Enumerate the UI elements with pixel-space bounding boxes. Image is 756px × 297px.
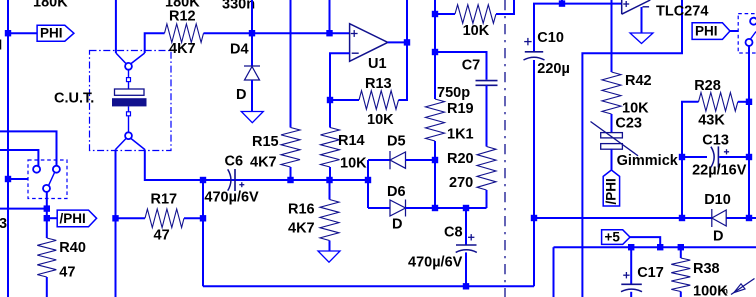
flag /PHI (vertical) xyxy=(603,170,619,206)
resistor R38 body xyxy=(671,258,690,292)
svg-text:C.U.T.: C.U.T. xyxy=(54,91,94,107)
svg-text:R28: R28 xyxy=(694,78,721,94)
wire C8 top lead xyxy=(465,208,467,245)
resistor R14 body xyxy=(321,128,340,168)
wire C6 right lead xyxy=(236,179,291,181)
junction C7 tap xyxy=(432,49,438,55)
wire U2 ground stem xyxy=(641,7,643,33)
wire R15 top lead xyxy=(290,0,292,128)
resistor R17 body xyxy=(145,209,184,228)
svg-text:N: N xyxy=(0,38,2,54)
junction net stub at top xyxy=(559,0,565,6)
wire D6 left lead xyxy=(368,207,390,209)
wire connector down xyxy=(748,46,750,102)
svg-text:43K: 43K xyxy=(698,113,725,129)
wire mid rail xyxy=(203,179,368,181)
svg-text:750p: 750p xyxy=(437,85,470,101)
svg-text:TLC274: TLC274 xyxy=(656,4,708,20)
wire to /PHI flag xyxy=(47,217,57,219)
wire right column xyxy=(748,102,750,218)
svg-text:/PHI: /PHI xyxy=(60,211,86,226)
wire rail y=218 right part xyxy=(726,217,756,219)
wire C17 bottom stub xyxy=(630,292,632,297)
wire rail y=218 left part xyxy=(534,217,712,219)
wire C23 to flag xyxy=(611,149,613,170)
flag PHI (top left) xyxy=(37,25,74,41)
capacitor C23 plate 1 xyxy=(601,133,623,138)
flag /PHI (left) xyxy=(57,210,96,227)
diode D6 bar xyxy=(405,200,407,217)
resistor R12 body xyxy=(165,24,204,43)
wire R28 left corner xyxy=(682,102,699,218)
svg-text:10K: 10K xyxy=(622,101,649,117)
wire C13 left lead xyxy=(682,156,707,158)
crystal bottom terminal circle xyxy=(125,132,132,139)
switch S1 box (dashed) xyxy=(28,160,67,199)
junction R17 right xyxy=(200,215,206,221)
connector lever xyxy=(751,32,756,40)
wire R17 left lead xyxy=(116,217,146,219)
wire C7 bottom lead xyxy=(486,85,488,146)
svg-text:10K: 10K xyxy=(463,23,490,39)
svg-text:330n: 330n xyxy=(222,0,255,13)
junction + input tap xyxy=(326,30,332,36)
diode D6 body xyxy=(390,200,406,216)
wire R15 bottom lead xyxy=(290,167,292,180)
svg-text:4K7: 4K7 xyxy=(288,220,315,236)
wire stub up xyxy=(561,0,563,4)
svg-text:R13: R13 xyxy=(365,76,392,92)
svg-text:+5: +5 xyxy=(605,230,621,245)
svg-text:R20: R20 xyxy=(447,151,474,167)
wire R16 bottom lead xyxy=(329,241,331,252)
wire C6 left lead xyxy=(203,179,228,181)
wire + input tap up xyxy=(329,0,331,33)
svg-text:C17: C17 xyxy=(637,265,664,281)
junction on left rail at PHI tap xyxy=(5,30,11,36)
capacitor C13 curved plate xyxy=(711,147,714,168)
capacitor C8 curved plate xyxy=(456,250,477,253)
diode D10 bar xyxy=(711,209,713,227)
wire R14 bottom lead xyxy=(329,167,331,180)
ground arrow below R16 xyxy=(318,251,340,262)
wire diode rail y=208 xyxy=(406,207,487,209)
svg-text:R17: R17 xyxy=(151,191,178,207)
svg-text:D10: D10 xyxy=(704,192,731,208)
wire switch common down xyxy=(46,192,48,218)
junction R28 right xyxy=(746,99,752,105)
svg-text:Gimmick: Gimmick xyxy=(617,153,679,169)
wire R38 top lead xyxy=(680,247,682,258)
op-amp U1 body xyxy=(350,24,388,62)
wire U1 output xyxy=(388,41,407,43)
wire rail y=247 drop xyxy=(553,247,555,297)
junction +5 tap xyxy=(657,244,663,250)
capacitor C7 plate 2 xyxy=(476,84,498,86)
svg-text:C6: C6 xyxy=(225,154,244,170)
resistor R13 body xyxy=(359,91,399,110)
wire R28 right lead xyxy=(738,101,749,103)
svg-text:R42: R42 xyxy=(625,73,652,89)
junction C13 right xyxy=(746,154,752,160)
op-amp U1 plus marker xyxy=(351,33,358,35)
wire R42 column xyxy=(611,0,613,72)
switch S1 contact 1 xyxy=(33,166,40,173)
junction D5 right xyxy=(432,157,438,163)
junction C17 tap xyxy=(628,244,634,250)
wire to switch pole B xyxy=(0,150,38,166)
svg-text:U1: U1 xyxy=(368,56,387,72)
crystal bottom pin xyxy=(128,106,130,111)
svg-text:/PHI: /PHI xyxy=(603,178,618,204)
capacitor C10 straight plate xyxy=(525,51,543,53)
connector contact bottom xyxy=(746,39,753,46)
svg-text:220µ: 220µ xyxy=(537,61,570,77)
capacitor C13 straight plate xyxy=(717,146,719,167)
wire top resistor left lead xyxy=(435,13,455,15)
flag +5 xyxy=(602,230,630,245)
junction mid rail R14/R16 xyxy=(326,177,332,183)
junction on left rail at switch stub xyxy=(5,176,11,182)
svg-text:C13: C13 xyxy=(702,133,729,149)
wire R19 bottom lead xyxy=(434,141,436,208)
capacitor C23 plate 2 xyxy=(601,144,623,150)
capacitor C17 straight plate xyxy=(621,283,642,285)
diode D10 body xyxy=(712,210,726,226)
capacitor C6 plus xyxy=(239,184,244,186)
resistor (cut top) body xyxy=(455,5,496,24)
capacitor C6 straight plate xyxy=(234,169,236,191)
svg-text:R16: R16 xyxy=(288,201,315,217)
wire C10 top corner xyxy=(534,4,622,52)
wire crystal bottom-right leg xyxy=(131,139,145,150)
wire +5 to rail xyxy=(630,237,660,247)
svg-text:R12: R12 xyxy=(169,8,196,24)
wire C17 top lead xyxy=(630,247,632,284)
wire output node up/down xyxy=(399,0,408,100)
svg-text:n: n xyxy=(723,287,728,296)
svg-text:R19: R19 xyxy=(447,101,474,117)
wire D4 top lead xyxy=(251,0,253,66)
svg-text:47: 47 xyxy=(59,265,75,281)
svg-text:PHI: PHI xyxy=(695,24,718,39)
capacitor C13 plus xyxy=(724,151,729,153)
svg-text:470µ/6V: 470µ/6V xyxy=(408,255,463,271)
wire C10 bottom lead xyxy=(533,60,535,286)
junction C10 column rail tap xyxy=(531,215,537,221)
wire rail y=247 xyxy=(554,246,756,248)
switch S1 common xyxy=(43,185,50,192)
wire R17 right lead xyxy=(184,217,203,219)
svg-text:R40: R40 xyxy=(59,240,86,256)
junction D6 right xyxy=(432,205,438,211)
junction D10 rail right xyxy=(746,215,752,221)
wire feedback column top xyxy=(434,0,436,99)
resistor R15 body xyxy=(281,128,300,168)
op-amp U2 plus marker xyxy=(623,3,629,5)
sheet boundary (dash-dot) xyxy=(504,0,506,297)
connector box (dashed, cut) xyxy=(738,14,756,53)
wire R16 top lead xyxy=(329,180,331,200)
svg-text:C23: C23 xyxy=(615,115,642,131)
wire C6 node down xyxy=(202,180,204,286)
diode D4 cathode bar xyxy=(244,65,260,67)
svg-text:C8: C8 xyxy=(444,224,463,240)
wire left rail x=8 xyxy=(7,0,9,297)
wire bottom rail xyxy=(203,285,534,287)
svg-text:D4: D4 xyxy=(230,42,249,58)
capacitor C8 plus xyxy=(468,236,474,238)
wire C7 top lead xyxy=(435,52,487,80)
wire to switch pole A xyxy=(0,131,57,166)
switch S1 contact 2 xyxy=(53,166,60,173)
capacitor C10 curved plate xyxy=(524,57,545,60)
svg-text:D5: D5 xyxy=(387,134,406,150)
switch S1 lever xyxy=(49,173,55,186)
svg-text:4K7: 4K7 xyxy=(169,41,196,57)
connector contact top xyxy=(750,18,756,25)
wire R13 left lead xyxy=(330,99,359,101)
junction mid rail C6 xyxy=(200,177,206,183)
wire op-amp + input rail xyxy=(204,32,350,34)
svg-text:4K7: 4K7 xyxy=(250,155,277,171)
junction /PHI rail xyxy=(44,205,50,211)
wire PHI stub xyxy=(8,32,38,34)
wire switch stub xyxy=(8,178,28,180)
wire R40 bottom lead xyxy=(46,277,48,297)
wire U1 - input xyxy=(330,53,350,100)
svg-text:R15: R15 xyxy=(252,134,279,150)
junction R17 left rail xyxy=(112,215,118,221)
wire crystal top-left leg xyxy=(115,0,117,53)
wire D5 left lead xyxy=(368,159,390,161)
junction mid rail R15 xyxy=(287,177,293,183)
capacitor C6 curved plate xyxy=(228,169,231,190)
flag PHI (top right) xyxy=(692,23,730,40)
capacitor C7 plate 1 xyxy=(476,80,498,82)
svg-text:R38: R38 xyxy=(693,261,720,277)
svg-text:PHI: PHI xyxy=(40,25,63,40)
trimmer arrow on R38 xyxy=(731,279,755,295)
junction C8 bottom xyxy=(463,283,469,289)
wire PHI to connector xyxy=(730,30,738,32)
svg-text:22µ/16V: 22µ/16V xyxy=(692,163,747,179)
svg-text:D6: D6 xyxy=(387,184,406,200)
resistor R42 body xyxy=(602,72,621,114)
capacitor C10 plus xyxy=(524,41,531,43)
svg-text:1K1: 1K1 xyxy=(447,127,474,143)
wire R42 to C23 xyxy=(611,114,613,133)
svg-text:47: 47 xyxy=(154,228,170,244)
capacitor C17 plus xyxy=(623,274,629,276)
crystal top pin xyxy=(128,70,130,78)
svg-text:D: D xyxy=(236,87,246,103)
junction C13 left xyxy=(679,154,685,160)
resistor R28 body xyxy=(699,93,738,112)
junction D10 rail left xyxy=(679,215,685,221)
crystal top terminal circle xyxy=(125,63,132,70)
wire /PHI rail from left edge xyxy=(0,208,47,210)
svg-text:3: 3 xyxy=(0,216,7,232)
wire R38 bottom lead xyxy=(680,292,682,297)
resistor R20 body xyxy=(477,147,496,191)
wire R40 top lead xyxy=(46,218,48,238)
junction R13/R14 node xyxy=(327,97,333,103)
op-amp U2 minus marker xyxy=(643,6,650,8)
svg-text:D: D xyxy=(392,216,402,232)
junction mid rail D5/D6 branch xyxy=(365,177,371,183)
junction /PHI flag tap xyxy=(44,215,50,221)
svg-text:C7: C7 xyxy=(462,58,481,74)
svg-text:10K: 10K xyxy=(367,112,394,128)
wire R20 bottom lead xyxy=(486,190,488,208)
diode D5 bar xyxy=(389,151,391,169)
wire D4 bottom lead xyxy=(251,80,253,112)
junction top resistor left xyxy=(432,11,438,17)
junction U1 output xyxy=(404,39,410,45)
svg-text:D: D xyxy=(713,229,723,245)
crystal plate 2 (filled) xyxy=(112,98,147,106)
resistor R40 body xyxy=(37,238,56,277)
wire D5 right lead xyxy=(406,159,436,161)
wire R14 top lead xyxy=(329,100,331,128)
op-amp U2 bottom edge xyxy=(622,0,651,14)
op-amp U2 left edge xyxy=(621,0,623,14)
wire crystal top-right leg xyxy=(145,33,165,53)
svg-text:10K: 10K xyxy=(340,156,367,172)
wire C8 bottom lead xyxy=(465,252,467,286)
wire D5/D6 left vertical xyxy=(367,160,369,208)
op-amp U1 minus marker xyxy=(352,52,359,54)
svg-text:R14: R14 xyxy=(338,133,365,149)
capacitor C17 curved plate xyxy=(621,289,642,292)
power arrow below D4 xyxy=(241,112,263,123)
wire crystal bottom-left leg xyxy=(116,139,127,150)
crystal plate 1 xyxy=(115,89,145,95)
diode D4 body xyxy=(245,67,260,81)
box C.U.T. (dash-dot) xyxy=(90,51,172,151)
junction R38 tap xyxy=(678,244,684,250)
ground arrow below U2 xyxy=(630,33,653,44)
junction C8 top xyxy=(463,205,469,211)
capacitor C23 trimmer slash xyxy=(591,122,639,156)
svg-text:270: 270 xyxy=(449,175,473,191)
junction D4 tap xyxy=(249,30,255,36)
svg-text:C10: C10 xyxy=(537,30,564,46)
capacitor C8 straight plate xyxy=(456,244,477,246)
resistor R19 body xyxy=(426,99,445,141)
wire C13 right lead xyxy=(719,156,749,158)
wire feedback bottom xyxy=(582,0,682,297)
wire top resistor right lead xyxy=(496,0,514,14)
svg-text:470µ/6V: 470µ/6V xyxy=(204,190,259,206)
resistor R16 body xyxy=(320,200,339,241)
svg-text:180K: 180K xyxy=(33,0,68,11)
diode D5 body xyxy=(390,152,406,168)
